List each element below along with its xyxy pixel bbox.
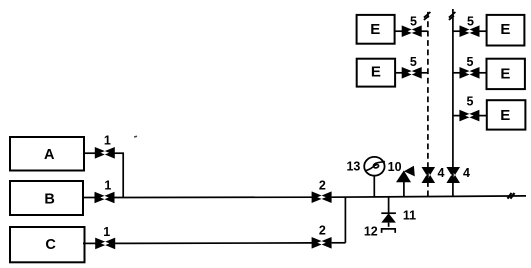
valve 11 stem — [388, 197, 390, 214]
box B — [10, 181, 83, 215]
wire valve 2 to main header — [332, 196, 526, 197]
solid riser (right) — [452, 9, 454, 196]
svg-text:E: E — [500, 21, 510, 38]
box E left 1 — [357, 15, 395, 44]
wire valve 5 to box E right 3 — [479, 115, 487, 117]
wire solid riser to valve 5 row 2 — [453, 72, 460, 74]
box C — [10, 227, 85, 262]
valve 1 (line A) — [95, 147, 115, 159]
wire E left 2 to valve 5 — [395, 72, 402, 74]
wire valve 2 to riser elbow — [332, 242, 346, 244]
wire C to valve 1 — [83, 242, 97, 244]
box E right 1 — [487, 15, 525, 46]
svg-text:12: 12 — [364, 225, 378, 239]
svg-text:C: C — [45, 237, 56, 253]
svg-text:1: 1 — [104, 179, 111, 193]
wire riser C up to main header — [344, 197, 346, 243]
wire valve 5 to box E right 1 — [479, 30, 486, 32]
svg-text:5: 5 — [410, 55, 417, 69]
svg-text:B: B — [44, 191, 54, 207]
relief valve 10 — [396, 166, 415, 183]
svg-text:1: 1 — [104, 134, 111, 148]
svg-text:4: 4 — [438, 166, 445, 180]
wire A to valve 1 — [84, 152, 96, 154]
relief valve 10 stem — [403, 182, 405, 197]
dashed riser (left) — [427, 9, 429, 196]
wire B to valve 1 — [83, 197, 96, 199]
svg-text:E: E — [370, 21, 380, 38]
valve 5 (left row 2) — [402, 67, 422, 79]
box E right 2 — [487, 59, 525, 89]
wire solid riser to valve 5 row 1 — [453, 30, 460, 32]
svg-text:E: E — [371, 64, 381, 81]
svg-text:1: 1 — [103, 225, 110, 239]
valve 5 (left row 1) — [402, 25, 422, 37]
svg-text:5: 5 — [467, 94, 474, 108]
speck artifact — [134, 135, 137, 137]
wire valve 5 to dashed riser — [421, 72, 428, 74]
drain 12 — [382, 229, 396, 233]
valve 5 (right row 2) — [460, 67, 480, 79]
svg-text:4: 4 — [463, 166, 470, 180]
wire valve 5 to dashed riser — [421, 30, 428, 32]
gauge 13 — [364, 157, 385, 176]
box A — [10, 137, 84, 171]
break mark solid riser — [449, 12, 456, 20]
valve 1 (line C) — [95, 238, 115, 250]
break mark main header — [508, 193, 515, 199]
wire line B main run — [114, 196, 312, 198]
valve 5 (right row 3) — [459, 110, 479, 122]
svg-text:2: 2 — [319, 178, 326, 192]
svg-text:E: E — [500, 66, 510, 83]
svg-text:E: E — [500, 107, 510, 124]
svg-text:5: 5 — [467, 55, 474, 69]
gauge 13 stem — [373, 176, 375, 197]
svg-text:11: 11 — [403, 208, 416, 222]
svg-text:5: 5 — [467, 14, 474, 28]
svg-text:10: 10 — [388, 160, 402, 174]
wire valve 5 to box E right 2 — [479, 72, 486, 74]
wire valve 1 to elbow — [115, 152, 124, 154]
wire elbow down to line B — [122, 152, 124, 197]
valve 11 — [381, 213, 396, 227]
svg-text:A: A — [44, 147, 55, 163]
valve 2 (line C) — [312, 237, 332, 249]
break mark dashed riser — [424, 12, 431, 20]
valve 5 (right row 1) — [460, 25, 480, 37]
valve 4 (solid riser) — [446, 167, 460, 183]
wire E left 1 to valve 5 — [395, 30, 402, 32]
svg-text:5: 5 — [410, 14, 417, 28]
valve 2 (line B) — [312, 191, 332, 203]
wire line C main run — [115, 242, 313, 245]
wire solid riser to valve 5 row 3 — [453, 115, 460, 117]
valve 1 (line B) — [95, 192, 115, 204]
svg-text:2: 2 — [319, 223, 326, 237]
valve 4 (dashed riser) — [422, 167, 436, 183]
svg-text:13: 13 — [346, 159, 360, 173]
box E left 2 — [357, 59, 395, 87]
box E right 3 — [487, 100, 526, 129]
